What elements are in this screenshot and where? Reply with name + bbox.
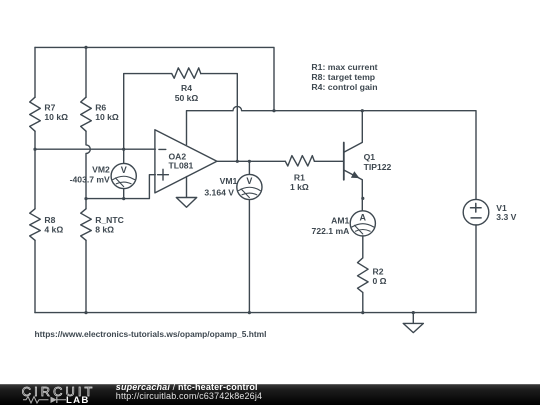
svg-text:TL081: TL081 — [169, 161, 194, 171]
svg-text:R_NTC: R_NTC — [95, 215, 124, 225]
svg-text:50 kΩ: 50 kΩ — [175, 93, 199, 103]
svg-text:Q1: Q1 — [364, 152, 376, 162]
svg-text:LAB: LAB — [66, 395, 90, 405]
svg-text:VM1: VM1 — [220, 176, 238, 186]
svg-text:R4: R4 — [181, 83, 192, 93]
svg-text:R8: target temp: R8: target temp — [311, 72, 375, 82]
svg-text:VM2: VM2 — [92, 165, 110, 175]
svg-text:https://www.electronics-tutori: https://www.electronics-tutorials.ws/opa… — [35, 329, 267, 339]
svg-text:722.1 mA: 722.1 mA — [312, 226, 350, 236]
svg-text:0 Ω: 0 Ω — [373, 276, 387, 286]
svg-text:4 kΩ: 4 kΩ — [44, 225, 63, 235]
svg-text:R1: max current: R1: max current — [311, 62, 377, 72]
svg-text:R1: R1 — [294, 173, 305, 183]
svg-text:R6: R6 — [95, 102, 106, 112]
svg-text:AM1: AM1 — [331, 215, 349, 225]
svg-text:V: V — [121, 165, 127, 175]
svg-text:-403.7 mV: -403.7 mV — [70, 174, 110, 184]
svg-text:10 kΩ: 10 kΩ — [44, 112, 68, 122]
svg-text:TIP122: TIP122 — [364, 162, 392, 172]
svg-text:1 kΩ: 1 kΩ — [290, 182, 309, 192]
svg-text:V: V — [246, 176, 252, 186]
svg-text:R2: R2 — [373, 266, 384, 276]
svg-text:R7: R7 — [44, 102, 55, 112]
svg-text:8 kΩ: 8 kΩ — [95, 225, 114, 235]
svg-text:3.164 V: 3.164 V — [204, 187, 234, 197]
svg-text:10 kΩ: 10 kΩ — [95, 112, 119, 122]
svg-text:3.3 V: 3.3 V — [496, 212, 516, 222]
svg-text:R4: control gain: R4: control gain — [311, 82, 377, 92]
svg-text:A: A — [360, 212, 367, 222]
svg-text:http://circuitlab.com/c63742k8: http://circuitlab.com/c63742k8e26j4 — [116, 391, 262, 401]
svg-text:R8: R8 — [44, 215, 55, 225]
